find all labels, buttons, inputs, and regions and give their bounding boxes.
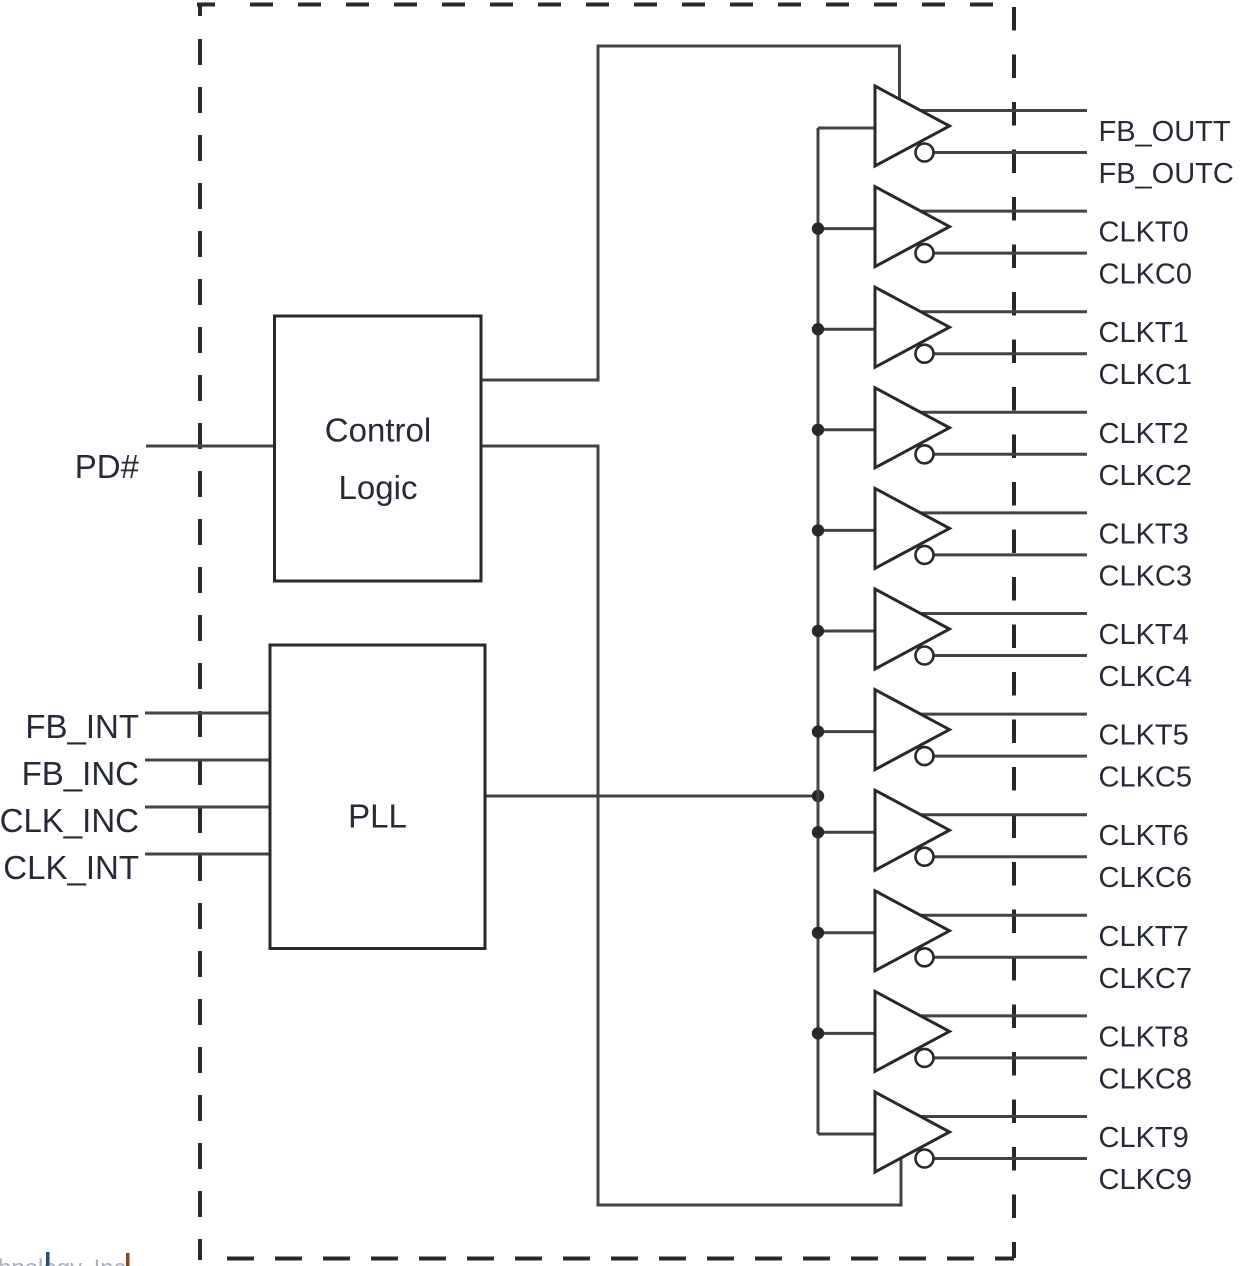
svg-text:CLK_INT: CLK_INT	[3, 849, 139, 886]
wire control logic output 2 (to bottom of CLK9 buffer)	[481, 446, 901, 1205]
buffer U10 triangle	[875, 991, 950, 1071]
wire true output of buffer U9	[917, 914, 1087, 917]
svg-text:CLKC4: CLKC4	[1099, 661, 1193, 693]
svg-text:Logic: Logic	[339, 469, 418, 506]
svg-text:Control: Control	[325, 412, 431, 449]
chip boundary dashed border, bottom edge	[227, 1257, 1014, 1261]
buffer U1 triangle	[875, 86, 950, 166]
buffer U6 inversion bubble	[916, 647, 934, 665]
footer fragment stroke 1	[46, 1252, 50, 1266]
block Control Logic	[275, 316, 482, 581]
svg-text:CLKT1: CLKT1	[1099, 317, 1189, 349]
wire CLK_INT input	[145, 853, 270, 856]
junction bus tap for buffer U2	[812, 222, 824, 234]
buffer U6 triangle	[875, 589, 950, 669]
svg-text:PLL: PLL	[348, 798, 407, 835]
svg-text:CLKC6: CLKC6	[1099, 862, 1193, 894]
svg-text:CLKT7: CLKT7	[1099, 921, 1189, 953]
wire input to buffer U3 from bus	[818, 328, 875, 331]
wire true output of buffer U2	[917, 210, 1087, 213]
svg-text:CLKC0: CLKC0	[1099, 259, 1193, 291]
junction bus tap for buffer U3	[812, 323, 824, 335]
wire true output of buffer U5	[917, 511, 1087, 514]
svg-text:FB_OUTT: FB_OUTT	[1099, 116, 1231, 148]
wire FB_INC input	[145, 759, 270, 762]
junction bus tap for buffer U8	[812, 826, 824, 838]
wire true output of buffer U4	[917, 411, 1087, 414]
wire input to buffer U9 from bus	[818, 931, 875, 934]
wire complement output of buffer U7	[933, 755, 1087, 758]
svg-text:FB_OUTC: FB_OUTC	[1099, 158, 1234, 190]
wire complement output of buffer U9	[933, 956, 1087, 959]
chip boundary dashed border, top edge	[197, 3, 994, 16]
svg-text:CLKC9: CLKC9	[1099, 1164, 1193, 1196]
wire complement output of buffer U8	[933, 855, 1087, 858]
buffer U8 triangle	[875, 790, 950, 870]
wire complement output of buffer U3	[933, 352, 1087, 355]
wire input to buffer U8 from bus	[818, 831, 875, 834]
junction bus tap for buffer U4	[812, 424, 824, 436]
svg-text:CLKC1: CLKC1	[1099, 359, 1193, 391]
buffer U8 inversion bubble	[916, 848, 934, 866]
svg-text:CLKC3: CLKC3	[1099, 560, 1193, 592]
buffer U2 inversion bubble	[916, 244, 934, 262]
buffer U7 inversion bubble	[916, 747, 934, 765]
wire control logic output 1 (to top of FB_OUT buffer)	[481, 46, 900, 380]
buffer U5 inversion bubble	[916, 546, 934, 564]
wire true output of buffer U6	[917, 612, 1087, 615]
wire input to buffer U7 from bus	[818, 730, 875, 733]
chip boundary dashed border, right edge	[1012, 7, 1016, 1258]
junction bus tap for buffer U9	[812, 927, 824, 939]
wire complement output of buffer U11	[933, 1157, 1087, 1160]
svg-text:CLKT2: CLKT2	[1099, 418, 1189, 450]
junction bus tap for buffer U7	[812, 725, 824, 737]
buffer U10 inversion bubble	[916, 1049, 934, 1067]
svg-text:CLK_INC: CLK_INC	[0, 802, 139, 839]
junction bus tap for buffer U6	[812, 625, 824, 637]
wire complement output of buffer U6	[933, 654, 1087, 657]
wire input to buffer U11 from bus	[818, 1133, 875, 1136]
wire complement output of buffer U5	[933, 553, 1087, 556]
buffer U3 triangle	[875, 287, 950, 367]
svg-text:FB_INC: FB_INC	[22, 755, 139, 792]
buffer U3 inversion bubble	[916, 345, 934, 363]
wire FB_INT input	[145, 712, 270, 715]
wire true output of buffer U10	[917, 1014, 1087, 1017]
svg-text:CLKC2: CLKC2	[1099, 460, 1193, 492]
svg-text:FB_INT: FB_INT	[25, 708, 139, 745]
svg-text:CLKT4: CLKT4	[1099, 619, 1189, 651]
wire input to buffer U5 from bus	[818, 529, 875, 532]
wire true output of buffer U7	[917, 713, 1087, 716]
wire complement output of buffer U2	[933, 252, 1087, 255]
svg-text:CLKT9: CLKT9	[1099, 1122, 1189, 1154]
buffer U2 triangle	[875, 187, 950, 267]
block PLL	[270, 645, 485, 949]
wire complement output of buffer U1	[933, 151, 1087, 154]
junction PLL output on bus	[812, 790, 824, 802]
buffer U9 triangle	[875, 891, 950, 971]
wire PD# input	[146, 445, 274, 448]
svg-text:CLKT3: CLKT3	[1099, 518, 1189, 550]
buffer U1 inversion bubble	[916, 144, 934, 162]
chip boundary dashed border, left edge	[198, 39, 202, 1260]
buffer U4 inversion bubble	[916, 445, 934, 463]
wire input to buffer U10 from bus	[818, 1032, 875, 1035]
wire PLL output to clock bus	[485, 795, 818, 798]
wire CLK_INC input	[145, 806, 270, 809]
wire true output of buffer U3	[917, 310, 1087, 313]
wire input to buffer U6 from bus	[818, 630, 875, 633]
buffer U5 triangle	[875, 488, 950, 568]
svg-text:CLKT8: CLKT8	[1099, 1021, 1189, 1053]
svg-text:CLKT5: CLKT5	[1099, 720, 1189, 752]
svg-text:CLKT0: CLKT0	[1099, 217, 1189, 249]
footer fragment stroke 2	[126, 1253, 130, 1266]
wire input to buffer U4 from bus	[818, 428, 875, 431]
wire input to buffer U2 from bus	[818, 227, 875, 230]
wire true output of buffer U8	[917, 813, 1087, 816]
junction bus tap for buffer U10	[812, 1027, 824, 1039]
junction bus tap for buffer U5	[812, 524, 824, 536]
svg-text:CLKC7: CLKC7	[1099, 963, 1193, 995]
wire complement output of buffer U10	[933, 1056, 1087, 1059]
svg-text:technology, Inc.: technology, Inc.	[0, 1255, 132, 1266]
svg-text:CLKT6: CLKT6	[1099, 820, 1189, 852]
buffer U11 inversion bubble	[916, 1150, 934, 1168]
wire input to buffer U1 from bus	[818, 127, 875, 130]
buffer U11 triangle	[875, 1092, 950, 1172]
svg-text:CLKC8: CLKC8	[1099, 1063, 1193, 1095]
svg-text:CLKC5: CLKC5	[1099, 762, 1193, 794]
wire true output of buffer U1	[917, 109, 1087, 112]
wire complement output of buffer U4	[933, 453, 1087, 456]
buffer U4 triangle	[875, 388, 950, 468]
buffer U9 inversion bubble	[916, 948, 934, 966]
wire true output of buffer U11	[917, 1115, 1087, 1118]
buffer U7 triangle	[875, 690, 950, 770]
svg-text:PD#: PD#	[75, 448, 140, 485]
wire vertical clock distribution bus	[817, 128, 820, 1134]
